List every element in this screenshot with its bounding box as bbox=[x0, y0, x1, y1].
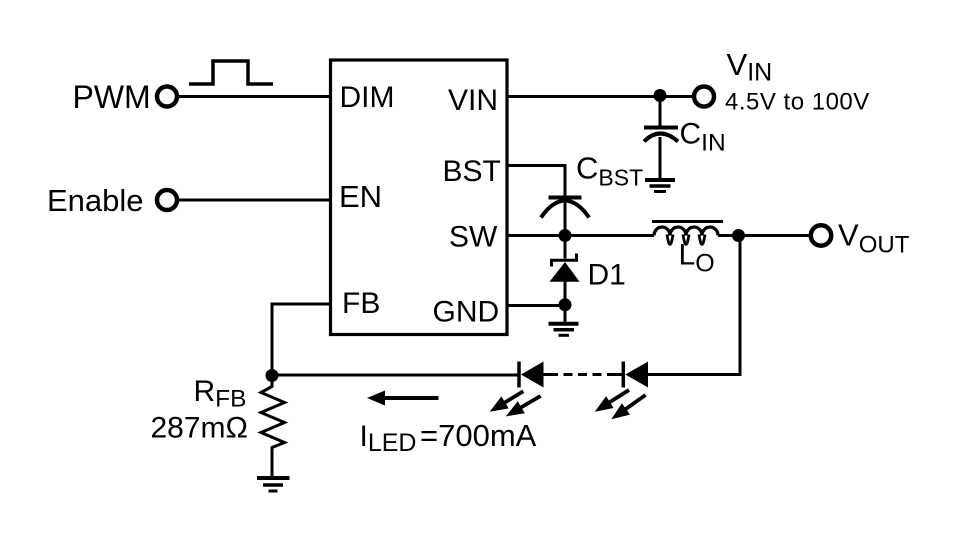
svg-text:FB: FB bbox=[342, 287, 380, 320]
pulse waveform bbox=[189, 61, 273, 84]
ground CIN bbox=[645, 180, 675, 192]
wire VIN pin to VIN terminal bbox=[508, 95, 693, 98]
svg-text:BST: BST bbox=[443, 155, 501, 188]
capacitor CIN bbox=[644, 126, 678, 130]
node GND junction bbox=[559, 298, 572, 311]
emission arrows LED D2 bbox=[490, 391, 541, 416]
terminal VIN bbox=[694, 87, 714, 107]
wire LED string row bbox=[272, 374, 519, 377]
terminal PWM bbox=[157, 87, 177, 107]
ground RFB bbox=[257, 478, 290, 491]
node VOUT junction bbox=[732, 229, 745, 242]
wire Enable to EN bbox=[179, 199, 331, 202]
wire VIN node down bbox=[659, 97, 662, 127]
terminal Enable bbox=[157, 190, 177, 210]
wire VOUT drop bbox=[739, 236, 742, 377]
wire FB pin bbox=[272, 304, 331, 376]
IC U1 LED driver block bbox=[331, 60, 508, 335]
terminal VOUT bbox=[811, 225, 831, 245]
resistor RFB bbox=[261, 376, 285, 479]
node VIN junction bbox=[654, 89, 667, 102]
svg-text:4.5V to 100V: 4.5V to 100V bbox=[725, 89, 870, 116]
wire BST to CBST bbox=[508, 166, 565, 197]
wire PWM to DIM bbox=[179, 95, 331, 98]
node FB junction bbox=[266, 369, 279, 382]
svg-text:DIM: DIM bbox=[340, 81, 395, 114]
wire inductor to VOUT bbox=[718, 234, 809, 237]
svg-text:D1: D1 bbox=[588, 259, 626, 292]
ground D1 bbox=[549, 324, 579, 336]
svg-text:VIN: VIN bbox=[448, 84, 498, 117]
emission arrows LED D3 bbox=[595, 390, 646, 419]
LED D2 bbox=[519, 362, 544, 388]
svg-text:Enable: Enable bbox=[47, 183, 144, 218]
LED D3 bbox=[623, 362, 648, 388]
inductor LO coil bbox=[654, 227, 718, 236]
svg-text:EN: EN bbox=[339, 179, 382, 214]
current arrow ILED bbox=[384, 396, 439, 400]
svg-text:PWM: PWM bbox=[73, 79, 151, 115]
svg-text:GND: GND bbox=[433, 296, 500, 329]
svg-text:287mΩ: 287mΩ bbox=[151, 412, 248, 445]
wire GND pin bbox=[508, 304, 565, 307]
node SW junction bbox=[559, 229, 572, 242]
dashed wire between LEDs bbox=[544, 373, 624, 376]
wire LED D3 to VOUT drop bbox=[648, 373, 742, 376]
wire CIN to ground bbox=[659, 137, 662, 180]
svg-text:SW: SW bbox=[449, 221, 498, 254]
wire SW pin to inductor bbox=[508, 234, 654, 237]
svg-text:=700mA: =700mA bbox=[420, 418, 537, 453]
capacitor CBST bbox=[549, 196, 582, 200]
diode D1 (schottky) bbox=[550, 236, 580, 322]
inductor LO core bar bbox=[652, 220, 723, 223]
wire CBST to SW node bbox=[564, 201, 567, 236]
